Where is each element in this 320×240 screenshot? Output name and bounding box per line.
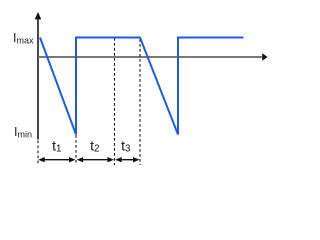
dashed guide x=114.5 (t2/t3 boundary) [114, 38, 116, 165]
current waveform (blue sawtooth) [40, 38, 244, 135]
t3 measurement arrow [115, 157, 139, 162]
t2 measurement arrow [77, 157, 114, 162]
t1 measurement arrow [38, 157, 75, 162]
x-axis (time axis) [38, 53, 268, 61]
dashed guide x=76 (t1/t2 boundary) [75, 135, 77, 165]
y-axis (current axis) [35, 12, 42, 140]
dashed guide x=140 (t3 right boundary) [139, 39, 141, 165]
dashed guide at axis x=38 (t1 left boundary) [37, 141, 39, 166]
